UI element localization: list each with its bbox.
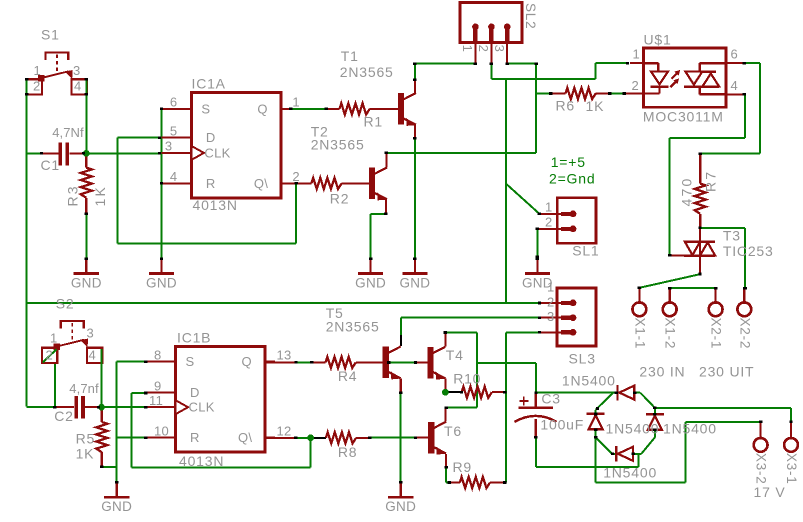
svg-text:SL2: SL2 [523,3,538,29]
svg-text:6: 6 [731,47,739,62]
svg-text:GND: GND [385,499,416,514]
svg-text:4,7nf: 4,7nf [69,381,99,396]
svg-text:GND: GND [522,275,553,290]
svg-text:R9: R9 [453,459,473,475]
svg-text:S: S [201,101,210,116]
svg-text:R5: R5 [76,431,96,447]
svg-text:D: D [206,130,216,145]
svg-text:2=Gnd: 2=Gnd [549,171,595,187]
svg-text:S: S [186,354,195,369]
svg-text:4: 4 [731,78,739,93]
svg-text:1K: 1K [586,98,605,114]
svg-text:3: 3 [165,139,173,154]
svg-text:R4: R4 [338,368,358,384]
svg-text:CLK: CLK [204,145,230,160]
svg-text:Q: Q [242,354,252,369]
svg-text:SL1: SL1 [572,243,599,259]
svg-text:T3: T3 [723,228,741,244]
svg-text:1: 1 [545,199,553,214]
svg-text:2: 2 [46,348,54,363]
svg-text:R: R [190,430,200,445]
svg-text:GND: GND [71,275,102,290]
svg-text:13: 13 [277,348,292,363]
svg-text:C3: C3 [541,391,561,407]
svg-text:S2: S2 [56,296,75,312]
svg-text:6: 6 [170,95,178,110]
svg-text:2: 2 [545,214,553,229]
svg-text:2: 2 [547,294,555,309]
svg-text:2N3565: 2N3565 [340,64,394,80]
svg-text:4,7Nf: 4,7Nf [52,125,84,140]
svg-text:S1: S1 [41,27,60,43]
svg-text:X1-2: X1-2 [663,318,678,350]
svg-text:R: R [206,176,216,191]
svg-text:T1: T1 [341,48,359,64]
svg-text:1: 1 [292,95,300,110]
svg-text:12: 12 [277,424,292,439]
svg-text:17 V: 17 V [754,484,786,500]
svg-text:2N3565: 2N3565 [326,319,380,335]
svg-text:SL3: SL3 [569,351,596,367]
svg-text:X3-1: X3-1 [784,453,799,485]
svg-text:1: 1 [34,63,42,78]
svg-text:230 UIT: 230 UIT [699,363,754,379]
svg-text:2N3565: 2N3565 [311,137,365,153]
svg-text:GND: GND [146,275,177,290]
svg-text:8: 8 [154,348,162,363]
svg-text:1=+5: 1=+5 [551,154,586,170]
svg-text:1N5400: 1N5400 [663,421,717,437]
svg-text:U$1: U$1 [644,32,672,48]
svg-text:230 IN: 230 IN [639,363,685,379]
svg-text:MOC3011M: MOC3011M [643,109,724,125]
svg-text:3: 3 [87,326,95,341]
svg-text:2: 2 [476,45,491,53]
svg-text:1: 1 [460,45,475,53]
svg-text:4013N: 4013N [193,197,238,213]
svg-text:X1-1: X1-1 [632,318,647,350]
svg-text:3: 3 [73,63,81,78]
svg-text:10: 10 [154,424,169,439]
svg-text:1: 1 [633,47,641,62]
svg-text:R8: R8 [338,444,358,460]
svg-text:2: 2 [33,79,41,94]
svg-text:2: 2 [632,78,640,93]
svg-text:X3-2: X3-2 [754,453,769,485]
svg-text:IC1A: IC1A [192,76,226,92]
svg-text:R6: R6 [556,98,576,114]
svg-text:3: 3 [547,309,555,324]
svg-text:GND: GND [399,275,430,290]
svg-text:X2-1: X2-1 [709,318,724,350]
svg-text:4: 4 [89,348,97,363]
svg-text:D: D [190,385,200,400]
svg-text:R3: R3 [64,184,80,206]
svg-text:Q\: Q\ [254,176,268,191]
svg-text:T4: T4 [446,347,464,363]
svg-text:R1: R1 [364,114,384,130]
svg-text:R2: R2 [330,191,350,207]
svg-text:100uF: 100uF [540,417,584,433]
svg-text:470: 470 [679,177,695,207]
svg-text:R7: R7 [703,170,719,192]
svg-text:1K: 1K [92,185,108,207]
svg-text:4013N: 4013N [179,453,224,469]
svg-text:Q\: Q\ [238,430,252,445]
svg-text:11: 11 [149,393,163,408]
svg-text:C2: C2 [54,408,73,424]
svg-text:2: 2 [292,169,300,184]
svg-text:Q: Q [257,101,267,116]
svg-text:CLK: CLK [189,400,215,415]
svg-text:X2-2: X2-2 [737,318,752,350]
svg-text:T6: T6 [444,423,462,439]
svg-text:IC1B: IC1B [177,330,211,346]
svg-text:3: 3 [492,45,507,53]
svg-text:4: 4 [170,169,178,184]
svg-text:R10: R10 [453,371,481,387]
svg-text:1N5400: 1N5400 [606,421,660,437]
svg-text:1N5400: 1N5400 [603,465,657,481]
svg-text:4: 4 [74,79,82,94]
svg-text:GND: GND [101,499,132,514]
svg-text:1N5400: 1N5400 [562,373,616,389]
svg-text:C1: C1 [41,157,61,173]
svg-text:1: 1 [50,331,58,346]
svg-text:1K: 1K [76,446,95,462]
svg-text:GND: GND [355,275,386,290]
svg-text:TIC253: TIC253 [723,243,774,259]
svg-text:9: 9 [154,378,162,393]
svg-text:5: 5 [170,123,178,138]
